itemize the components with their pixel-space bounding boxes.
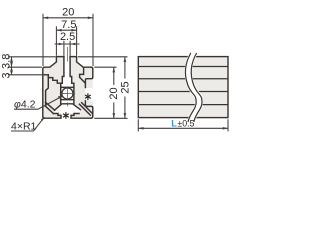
svg-text:4×R1: 4×R1 bbox=[11, 121, 37, 133]
svg-text:20: 20 bbox=[62, 7, 74, 19]
svg-text:φ4.2: φ4.2 bbox=[14, 98, 36, 110]
svg-text:7.5: 7.5 bbox=[61, 19, 76, 31]
svg-text:3: 3 bbox=[0, 73, 12, 79]
svg-text:±0.5: ±0.5 bbox=[177, 119, 194, 129]
svg-text:25: 25 bbox=[119, 81, 131, 93]
svg-text:3.8: 3.8 bbox=[0, 54, 12, 69]
svg-text:L: L bbox=[171, 119, 177, 129]
svg-text:2.5: 2.5 bbox=[60, 31, 75, 43]
